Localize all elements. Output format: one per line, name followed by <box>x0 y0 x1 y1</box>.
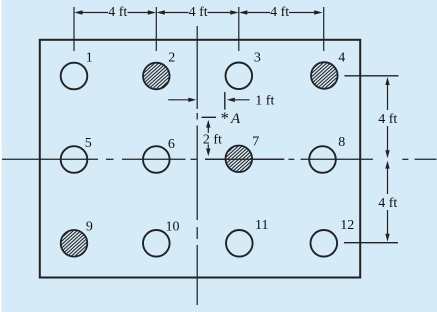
2 ft upper arrow (points up) <box>206 120 210 133</box>
plate outline <box>40 40 360 278</box>
extension line col1 <box>73 7 75 51</box>
svg-text:11: 11 <box>255 218 268 233</box>
right dimension upper 4 ft (row1 to centerline) <box>385 77 389 158</box>
right lower tick (row 3 level) <box>344 242 398 244</box>
svg-text:2: 2 <box>168 50 175 65</box>
top dimension span 1 (4 ft) <box>74 10 156 15</box>
svg-text:4: 4 <box>338 50 345 65</box>
hole 7 (hatched) <box>226 146 253 173</box>
hole 9 (hatched) <box>61 230 88 257</box>
hole 10 <box>143 230 170 257</box>
horizontal centerline <box>2 158 437 160</box>
hole 11 <box>226 230 253 257</box>
1 ft offset: right-pointing arrow to centerline <box>168 98 196 102</box>
hole 8 <box>309 146 336 173</box>
svg-text:4 ft: 4 ft <box>378 196 397 211</box>
svg-text:8: 8 <box>338 135 345 150</box>
extension line col3 <box>238 7 240 51</box>
extension line col2 <box>155 7 157 51</box>
hole 2 (hatched) <box>143 63 170 90</box>
hole 12 <box>311 230 338 257</box>
extension line col4 <box>323 7 325 51</box>
hole 1 <box>61 63 88 90</box>
vertical centerline <box>196 26 198 305</box>
1 ft left-pointing arrow <box>227 98 250 102</box>
right dimension lower 4 ft (centerline to row3) <box>385 161 389 242</box>
hole 4 (hatched) <box>311 62 338 89</box>
svg-text:3: 3 <box>254 50 261 65</box>
svg-text:5: 5 <box>85 136 92 151</box>
svg-text:4 ft: 4 ft <box>108 5 127 20</box>
top dimension span 2 (4 ft) <box>157 10 239 15</box>
svg-text:4 ft: 4 ft <box>270 5 289 20</box>
hole 6 <box>143 146 170 173</box>
svg-text:12: 12 <box>340 218 354 233</box>
hole 5 <box>61 146 88 173</box>
svg-text:7: 7 <box>252 135 259 150</box>
right upper tick (row 1 level) <box>344 75 398 77</box>
1 ft tick at point A abscissa <box>224 92 226 110</box>
redraw centerline over hatched holes <box>205 158 284 160</box>
svg-text:*: * <box>221 109 229 128</box>
svg-text:2 ft: 2 ft <box>203 132 222 147</box>
left white edge strip <box>0 0 2 312</box>
svg-text:4 ft: 4 ft <box>378 112 397 127</box>
top dimension span 3 (4 ft) <box>239 10 323 15</box>
svg-text:1 ft: 1 ft <box>255 94 274 109</box>
hole 3 <box>226 63 253 90</box>
svg-text:A: A <box>230 111 241 127</box>
svg-text:9: 9 <box>86 219 93 234</box>
2 ft lower arrow (points down) <box>206 144 210 156</box>
svg-text:6: 6 <box>168 137 175 152</box>
svg-text:4 ft: 4 ft <box>189 5 208 20</box>
2 ft tick at point A ordinate <box>202 116 217 118</box>
svg-text:10: 10 <box>166 219 180 234</box>
svg-text:1: 1 <box>86 51 93 66</box>
